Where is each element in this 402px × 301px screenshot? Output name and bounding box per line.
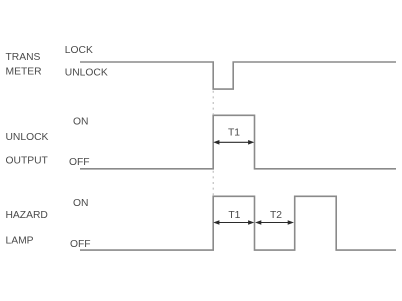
svg-text:ON: ON xyxy=(73,117,88,128)
dimension arrow T2 (hazard lamp) xyxy=(255,220,294,225)
dimension arrow T1 (hazard lamp) xyxy=(213,220,254,225)
svg-text:OUTPUT: OUTPUT xyxy=(6,156,49,167)
svg-text:HAZARD: HAZARD xyxy=(6,210,48,221)
dashed reference line (between UNLOCK OUTPUT and HAZARD LAMP) xyxy=(212,171,214,196)
wire UNLOCK OUTPUT waveform xyxy=(80,115,396,169)
svg-text:METER: METER xyxy=(6,67,42,78)
wire HAZARD LAMP waveform xyxy=(80,196,396,250)
label UNLOCK OUTPUT xyxy=(6,132,49,167)
dimension arrow T1 (unlock output) xyxy=(213,140,254,145)
svg-text:OFF: OFF xyxy=(70,239,91,250)
svg-text:ON: ON xyxy=(73,198,88,209)
svg-text:LAMP: LAMP xyxy=(6,236,34,247)
svg-text:UNLOCK: UNLOCK xyxy=(6,132,49,143)
svg-text:TRANS: TRANS xyxy=(6,52,41,63)
svg-text:LOCK: LOCK xyxy=(65,45,93,56)
svg-text:UNLOCK: UNLOCK xyxy=(65,68,108,79)
label TRANS METER xyxy=(6,52,42,78)
svg-text:T2: T2 xyxy=(270,210,282,221)
label HAZARD LAMP xyxy=(6,210,48,247)
svg-text:T1: T1 xyxy=(228,210,240,221)
wire TRANS METER waveform xyxy=(80,62,396,89)
svg-text:OFF: OFF xyxy=(69,157,90,168)
dashed reference line (between TRANS METER and UNLOCK OUTPUT) xyxy=(212,91,214,115)
svg-text:T1: T1 xyxy=(228,128,240,139)
